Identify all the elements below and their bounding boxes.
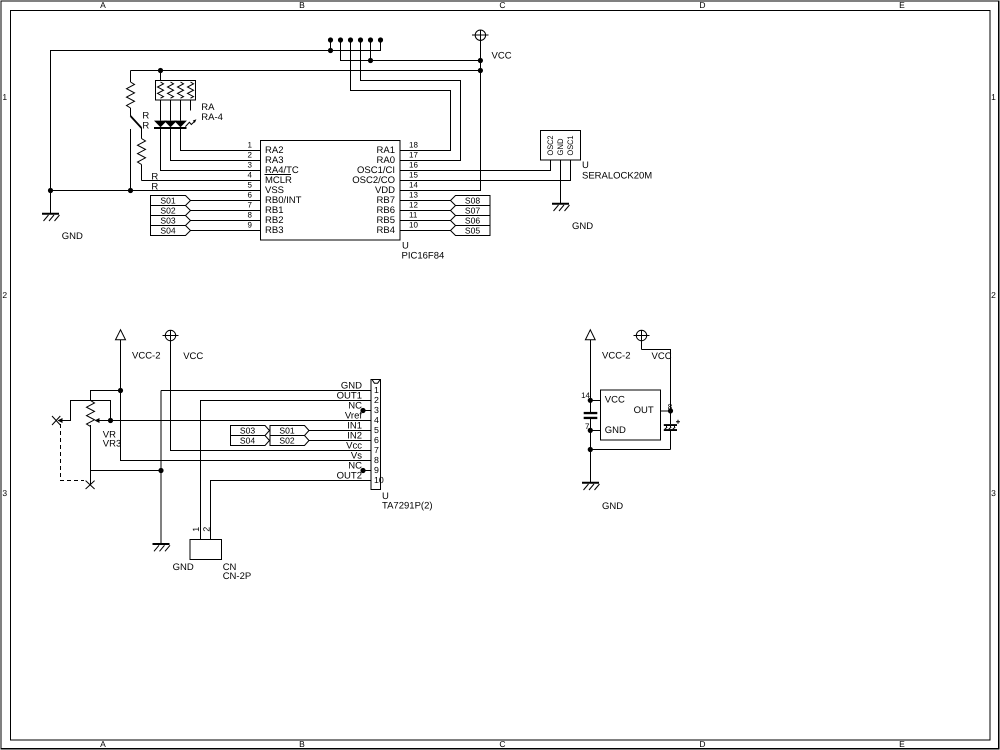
svg-text:3: 3: [248, 161, 253, 170]
frame row labels left: [2, 92, 7, 498]
PIC16F84 right pin labels: [352, 145, 395, 236]
net flag S03 (lower): [231, 425, 270, 435]
wire: cap C2 to GND rail: [590, 449, 670, 451]
svg-text:GND: GND: [62, 231, 83, 242]
svg-text:S01: S01: [279, 425, 295, 435]
svg-text:9: 9: [248, 221, 253, 230]
svg-text:S06: S06: [465, 215, 481, 225]
frame column labels top: [100, 0, 905, 10]
svg-text:1: 1: [2, 92, 7, 102]
capacitor C2 electrolytic: [664, 411, 680, 450]
dashed linkage line: [61, 424, 85, 481]
svg-text:VR3: VR3: [103, 438, 121, 449]
switch diagonal between R1 and R2: [131, 116, 142, 128]
junction dot (590,449.5): [588, 447, 593, 452]
svg-text:1: 1: [248, 141, 253, 150]
svg-text:14: 14: [409, 181, 418, 190]
junction dot (120,390): [118, 388, 123, 393]
svg-text:E: E: [899, 739, 905, 749]
svg-text:7: 7: [248, 201, 253, 210]
net flag S03: [151, 215, 191, 225]
svg-text:A: A: [100, 739, 106, 749]
NC stub pin9: [363, 470, 371, 472]
wire: VCC down to Vcc pin7: [171, 341, 372, 451]
resistor R1: [127, 71, 135, 117]
svg-text:1: 1: [191, 527, 201, 532]
connector CN CN-2P box: [190, 540, 221, 560]
stub wire x330: [330, 40, 332, 51]
svg-text:VCC: VCC: [492, 51, 512, 62]
svg-text:GND: GND: [572, 221, 593, 232]
svg-text:VCC: VCC: [605, 394, 625, 405]
oscillator U SERALOCK20M box: [541, 131, 581, 161]
wire: VCC-2 down to Vs pin8: [121, 340, 372, 461]
junction dot (590,430): [588, 428, 593, 433]
wire: VCC vertical to VDD pin14: [400, 60, 480, 191]
svg-text:GND: GND: [173, 562, 194, 573]
TA7291P notch: [372, 380, 380, 383]
svg-text:7: 7: [374, 445, 379, 455]
wire net y60: stub2 to VCC vertical: [341, 40, 481, 61]
junction dot (330,40): [328, 37, 333, 42]
IC U PIC16F84 box: [261, 141, 401, 241]
svg-text:S02: S02: [279, 435, 295, 445]
svg-text:18: 18: [409, 141, 418, 150]
net flag S04: [151, 225, 191, 235]
NC dot pin3: [360, 408, 365, 413]
net flag S01 (lower): [270, 425, 309, 435]
wire: GND rail to VSS pin5: [51, 190, 261, 192]
junction dot (160,70): [158, 68, 163, 73]
TA7291P pin labels: [337, 380, 363, 481]
LED array (3 LEDs): [154, 121, 187, 129]
net flag S05: [451, 225, 491, 235]
svg-text:3: 3: [2, 488, 7, 498]
svg-text:1: 1: [374, 385, 379, 395]
svg-text:D: D: [699, 0, 705, 10]
svg-text:5: 5: [374, 425, 379, 435]
svg-text:B: B: [299, 739, 305, 749]
svg-text:S02: S02: [160, 205, 176, 215]
wires: RA pins down: [161, 100, 181, 121]
ground symbol GND (bottom-right): [582, 483, 600, 490]
ground symbol GND (CN area): [153, 544, 171, 551]
svg-text:RA-4: RA-4: [201, 112, 223, 123]
svg-text:13: 13: [409, 191, 418, 200]
wire: stub3 to RA1 pin18: [351, 40, 451, 151]
wire: VR bottom to GND net: [91, 470, 162, 472]
VCC-2 power symbol (bottom-right): [585, 330, 595, 340]
svg-text:RB3: RB3: [265, 225, 283, 236]
wire: SERALOCK GND pin down: [560, 160, 562, 203]
svg-text:GND: GND: [602, 501, 623, 512]
net flag S06: [451, 215, 491, 225]
svg-text:TA7291P(2): TA7291P(2): [382, 501, 433, 512]
PIC16F84 right pin numbers: [409, 141, 418, 230]
junction dot (380,40): [378, 37, 383, 42]
svg-text:GND: GND: [605, 425, 626, 436]
CN pin numbers rotated: [191, 527, 211, 532]
svg-text:VCC-2: VCC-2: [602, 351, 631, 362]
junction dot (360,40): [358, 37, 363, 42]
svg-text:10: 10: [409, 221, 418, 230]
svg-text:3: 3: [991, 488, 996, 498]
junction dot (110,420): [108, 418, 113, 423]
svg-text:8: 8: [374, 455, 379, 465]
svg-text:VCC-2: VCC-2: [132, 351, 161, 362]
svg-text:A: A: [100, 0, 106, 10]
IC U3 box (VCC/OUT/GND): [600, 390, 660, 440]
junction dot (480,60): [478, 58, 483, 63]
wire: S01 flag to IN1 pin5: [309, 430, 371, 432]
wire: OUT1 pin2 to CN pin1: [201, 401, 372, 540]
wire: RA pin4 dangling: [190, 100, 192, 110]
svg-text:S07: S07: [465, 205, 481, 215]
svg-text:17: 17: [409, 151, 418, 160]
wire net y50: GND-left rail from (50,50) to stub6: [51, 40, 381, 190]
svg-text:VCC: VCC: [652, 351, 672, 362]
wire x130 to GND rail: [130, 129, 132, 191]
junction dot (161,470): [158, 468, 163, 473]
IC U TA7291P box: [371, 380, 381, 490]
svg-text:OUT2: OUT2: [337, 470, 362, 481]
svg-text:15: 15: [409, 171, 418, 180]
svg-text:2: 2: [991, 290, 996, 300]
ground symbol GND (SERALOCK): [552, 204, 570, 211]
wires: flags S01-S04 to pins 6-9: [191, 201, 261, 231]
junction dot (350,40): [348, 37, 353, 42]
junction dot (340,40): [338, 37, 343, 42]
capacitor C1 plates: [584, 412, 598, 419]
svg-text:VCC: VCC: [183, 351, 203, 362]
U3 pin labels inside: [605, 394, 654, 436]
VCC power symbol (bottom-right): [634, 330, 650, 349]
svg-text:7: 7: [585, 422, 590, 431]
svg-text:6: 6: [374, 435, 379, 445]
svg-text:2: 2: [201, 527, 211, 532]
NC stub pin3: [363, 410, 371, 412]
svg-text:S01: S01: [160, 195, 176, 205]
svg-text:S03: S03: [240, 425, 256, 435]
svg-text:S05: S05: [465, 225, 481, 235]
junction dot (370,60): [368, 58, 373, 63]
wire: GND net vertical x161: [160, 391, 162, 544]
svg-text:2: 2: [2, 290, 7, 300]
svg-text:S03: S03: [160, 215, 176, 225]
PIC16F84 left pin labels: [265, 145, 302, 236]
wires: pins 13-10 to flags S08-S05: [400, 201, 451, 231]
stub wire x370: [370, 40, 372, 61]
VCC-2 power symbol (bottom-left): [116, 330, 126, 340]
svg-text:10: 10: [374, 475, 384, 485]
wire: VCC jog down to OUT pin: [642, 350, 671, 411]
svg-text:D: D: [699, 739, 705, 749]
net flag S08: [451, 195, 491, 205]
NC dot pin9: [360, 468, 365, 473]
adjust arrow with X: [52, 416, 63, 425]
junction dot (130,190): [128, 188, 133, 193]
svg-text:16: 16: [409, 161, 418, 170]
junction dot (480,70): [478, 68, 483, 73]
wire: stub4 to RA0 pin17: [361, 40, 461, 161]
svg-text:CN-2P: CN-2P: [223, 571, 252, 582]
junction dot (590,400): [588, 398, 593, 403]
LED light arrow: [185, 122, 194, 127]
svg-text:OSC2: OSC2: [546, 135, 555, 155]
junction dot OUT pin: [668, 408, 673, 413]
net flag S01: [151, 195, 191, 205]
svg-text:OSC1: OSC1: [566, 135, 575, 155]
svg-text:S04: S04: [240, 435, 256, 445]
net flag S04 (lower): [231, 435, 270, 445]
SERALOCK20M rotated pin labels: [546, 135, 575, 155]
X terminal mark (VR bottom): [86, 481, 95, 489]
net flag S02 (lower): [270, 435, 309, 445]
junction dot (50,190): [48, 188, 53, 193]
net flag S02: [151, 205, 191, 215]
svg-text:2: 2: [374, 395, 379, 405]
svg-text:11: 11: [409, 211, 418, 220]
wire: OUT2 pin10 to CN pin2: [211, 481, 372, 540]
junction dot (330,50): [328, 48, 333, 53]
svg-text:12: 12: [409, 201, 418, 210]
svg-text:S04: S04: [160, 225, 176, 235]
variable resistor VR3: [87, 401, 100, 486]
wire: S02 flag to IN2 pin6: [309, 440, 371, 442]
wire: GND net to pin1: [161, 390, 371, 392]
wires: LED cathodes to pins 1-3: [181, 129, 261, 151]
wire: pin15 to SERALOCK OSC1: [400, 160, 571, 181]
svg-text:OUT: OUT: [634, 405, 654, 416]
frame row labels right: [991, 92, 996, 498]
wire: VR wiper to Vref pin4: [99, 420, 371, 422]
svg-text:6: 6: [248, 191, 253, 200]
svg-text:2: 2: [248, 151, 253, 160]
svg-text:PIC16F84: PIC16F84: [402, 251, 445, 262]
svg-text:R: R: [142, 120, 149, 131]
wire: VCC-2 down to cap C1: [589, 340, 591, 412]
net flag S07: [451, 205, 491, 215]
PIC16F84 left pin numbers: [248, 141, 253, 230]
resistor network RA box: [156, 80, 196, 100]
frame column labels bottom: [100, 739, 905, 749]
svg-text:1: 1: [991, 92, 996, 102]
svg-text:GND: GND: [556, 138, 565, 155]
resistor R2: [138, 128, 146, 181]
svg-text:E: E: [899, 0, 905, 10]
ground symbol GND (top-left): [42, 191, 60, 222]
wires: pin18 pin17 handled above; pin16 to SERALOCK OSC2: [400, 160, 551, 171]
svg-text:4: 4: [374, 415, 379, 425]
svg-text:4: 4: [248, 171, 253, 180]
svg-text:S08: S08: [465, 195, 481, 205]
MCLR overline: [265, 174, 292, 176]
svg-text:RB4: RB4: [377, 225, 395, 236]
wire net y70: R1 top to VCC vertical: [131, 70, 481, 72]
svg-text:5: 5: [248, 181, 253, 190]
svg-text:SERALOCK20M: SERALOCK20M: [582, 170, 652, 181]
wire: wiper adjust link: [62, 401, 111, 421]
svg-text:3: 3: [374, 405, 379, 415]
wire: cap C1 to GND: [589, 419, 591, 482]
svg-text:14: 14: [581, 391, 590, 400]
svg-text:C: C: [499, 739, 505, 749]
svg-text:C: C: [499, 0, 505, 10]
svg-text:B: B: [299, 0, 305, 10]
svg-text:8: 8: [248, 211, 253, 220]
TA7291P pin numbers: [374, 385, 384, 485]
wire: common pin of RA: [160, 71, 162, 81]
U3 pin stubs: [590, 400, 670, 430]
VCC power symbol (bottom-left): [163, 330, 179, 341]
VCC power symbol (top): [472, 30, 489, 60]
wire: R2 to MCLR pin4: [142, 180, 261, 182]
svg-text:9: 9: [374, 465, 379, 475]
junction dot (370,40): [368, 37, 373, 42]
wire: VR top to VCC-2 rail: [91, 391, 121, 401]
